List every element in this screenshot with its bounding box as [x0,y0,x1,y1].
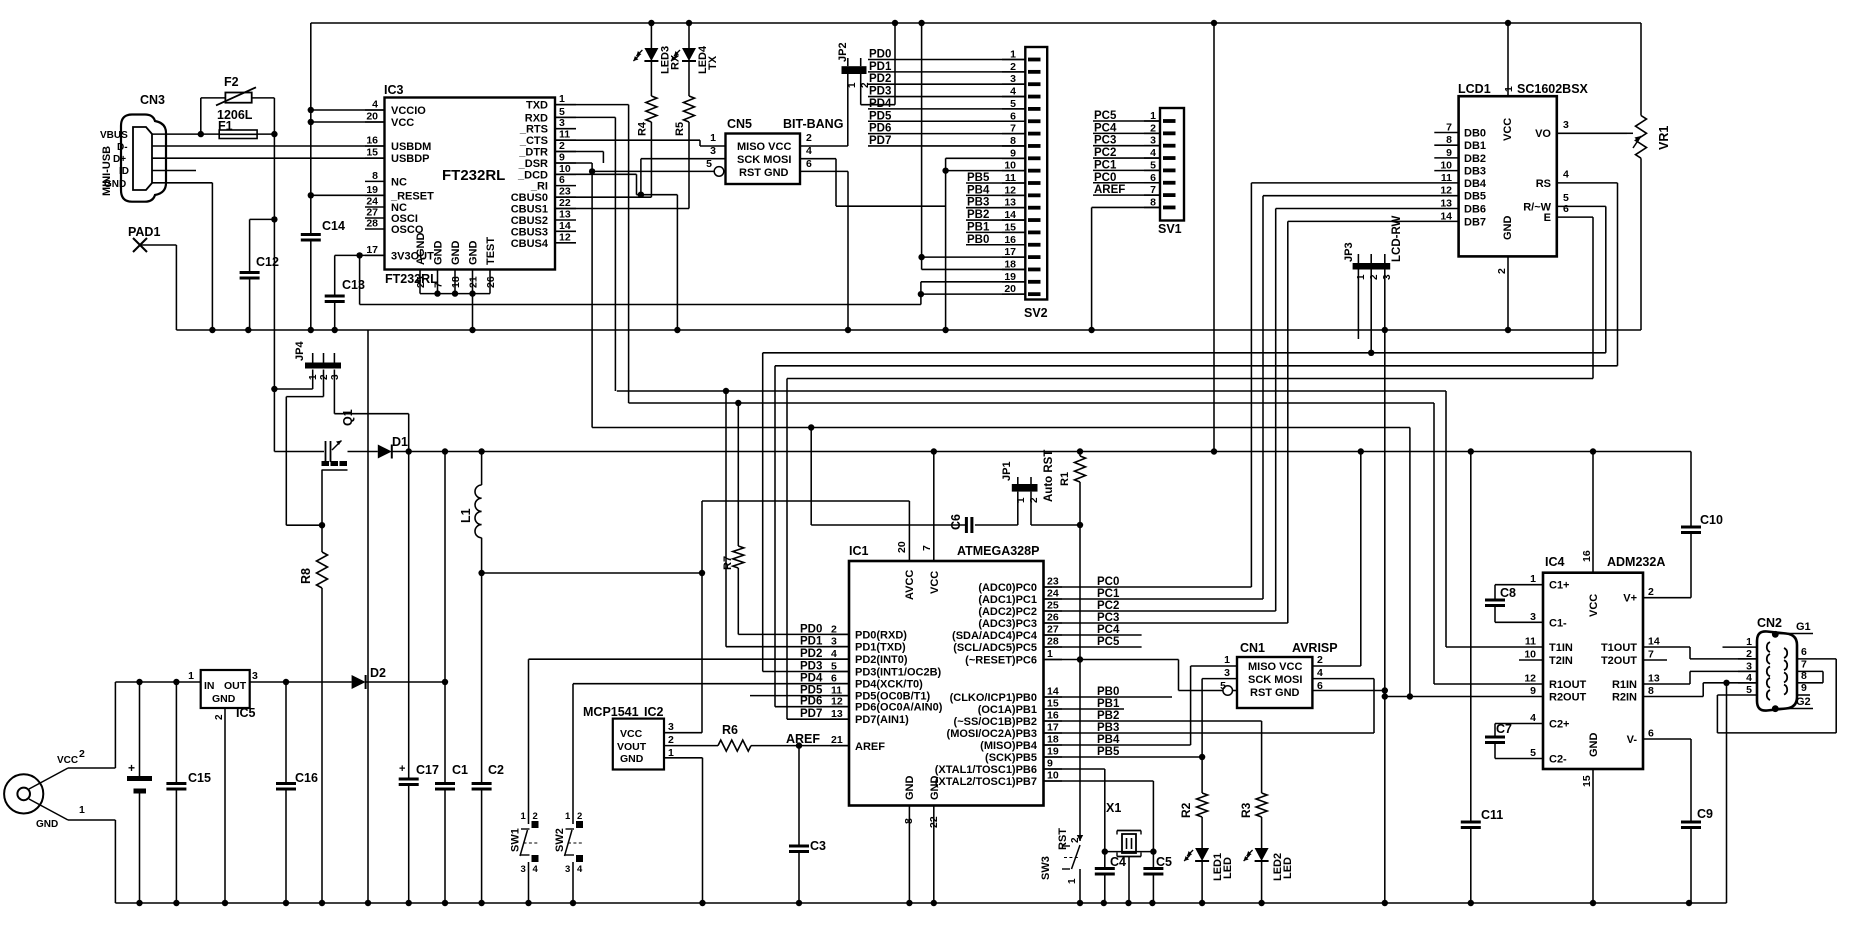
svg-text:19: 19 [366,184,378,196]
svg-text:PC4: PC4 [1097,624,1120,636]
svg-text:8: 8 [1446,134,1452,146]
svg-text:_CTS: _CTS [519,135,548,147]
svg-text:R2: R2 [1179,802,1193,818]
svg-text:VCC: VCC [620,728,643,740]
svg-text:5: 5 [1220,680,1226,692]
svg-text:2: 2 [79,748,85,760]
svg-text:GND: GND [104,179,126,190]
svg-text:4: 4 [831,648,837,660]
svg-text:GND: GND [212,693,236,705]
svg-text:PC1: PC1 [1097,588,1120,600]
svg-text:18: 18 [450,276,462,288]
svg-text:4: 4 [1150,147,1156,159]
svg-text:2: 2 [668,734,674,746]
svg-text:L1: L1 [459,508,473,523]
svg-text:2: 2 [1029,497,1040,503]
svg-text:12: 12 [559,231,571,243]
svg-text:R1OUT: R1OUT [1549,679,1587,691]
svg-text:18: 18 [1004,258,1016,270]
svg-text:21: 21 [468,276,480,288]
svg-text:PC0: PC0 [1094,172,1116,184]
svg-text:17: 17 [1004,246,1016,258]
svg-text:PB0: PB0 [967,234,989,246]
svg-text:GND: GND [620,753,644,765]
svg-text:6: 6 [1563,203,1569,215]
svg-text:DB4: DB4 [1464,178,1487,190]
svg-text:R5: R5 [674,122,686,136]
svg-text:2: 2 [1070,837,1081,843]
svg-text:VCCIO: VCCIO [391,105,426,117]
svg-text:4: 4 [1010,86,1016,98]
svg-text:6: 6 [1648,728,1654,740]
svg-text:C12: C12 [256,255,279,269]
svg-text:1: 1 [188,670,194,682]
svg-text:1: 1 [1224,654,1230,666]
svg-text:(CLKO/ICP1)PB0: (CLKO/ICP1)PB0 [950,692,1037,704]
svg-text:4: 4 [577,864,583,875]
svg-text:PD4: PD4 [800,673,823,685]
svg-text:9: 9 [1801,682,1807,694]
svg-text:19: 19 [1047,746,1059,758]
svg-text:PC2: PC2 [1097,600,1119,612]
svg-text:X1: X1 [1106,801,1121,815]
svg-text:1: 1 [559,93,565,105]
svg-text:20: 20 [896,541,908,553]
svg-text:9: 9 [1047,758,1053,770]
svg-text:CN3: CN3 [140,93,165,107]
svg-text:C14: C14 [322,219,345,233]
svg-text:PB5: PB5 [1097,746,1120,758]
svg-text:1: 1 [565,811,571,822]
svg-text:3: 3 [521,864,526,875]
svg-text:_RESET: _RESET [390,190,434,202]
svg-text:1: 1 [1047,648,1053,660]
svg-text:R3: R3 [1239,802,1253,818]
svg-text:23: 23 [559,186,571,198]
svg-text:8: 8 [1010,135,1016,147]
svg-text:(XTAL2/TOSC1)PB7: (XTAL2/TOSC1)PB7 [935,776,1037,788]
svg-text:2: 2 [806,132,812,144]
svg-text:USBDP: USBDP [391,153,430,165]
svg-text:4: 4 [806,145,812,157]
svg-text:PB0: PB0 [1097,686,1119,698]
svg-text:IC1: IC1 [849,544,869,558]
svg-text:(MISO)PB4: (MISO)PB4 [980,740,1038,752]
svg-text:12: 12 [1440,185,1452,197]
svg-text:CBUS1: CBUS1 [511,204,548,216]
svg-text:25: 25 [415,276,427,288]
svg-text:C1+: C1+ [1549,580,1570,592]
svg-text:C1: C1 [452,763,468,777]
svg-text:3: 3 [1746,660,1752,672]
svg-text:2: 2 [831,623,837,635]
svg-text:PC3: PC3 [1094,135,1116,147]
svg-text:PD1: PD1 [869,61,892,73]
svg-text:BIT-BANG: BIT-BANG [783,117,843,131]
svg-text:8: 8 [372,170,378,182]
svg-text:8: 8 [1801,670,1807,682]
svg-text:R2IN: R2IN [1612,692,1637,704]
svg-text:1: 1 [1356,274,1367,280]
svg-text:2: 2 [577,811,582,822]
svg-text:9: 9 [1446,147,1452,159]
svg-text:10: 10 [1004,160,1016,172]
svg-text:8: 8 [1648,685,1654,697]
svg-text:PD0: PD0 [800,623,822,635]
svg-text:7: 7 [1010,123,1016,135]
svg-text:20: 20 [366,111,378,123]
svg-text:PD2: PD2 [869,73,891,85]
svg-text:G2: G2 [1796,696,1811,708]
svg-text:VCC: VCC [391,117,414,129]
svg-text:PD2: PD2 [800,648,822,660]
svg-text:(~SS/OC1B)PB2: (~SS/OC1B)PB2 [954,716,1037,728]
svg-text:D+: D+ [113,154,126,165]
svg-text:C5: C5 [1156,855,1172,869]
svg-text:C2+: C2+ [1549,719,1570,731]
svg-text:8: 8 [1150,196,1156,208]
svg-text:4: 4 [1317,667,1323,679]
svg-text:GND: GND [36,819,58,830]
svg-text:14: 14 [559,220,571,232]
svg-text:VR1: VR1 [1657,126,1671,150]
svg-text:ATMEGA328P: ATMEGA328P [957,544,1039,558]
svg-text:TX: TX [707,55,719,70]
svg-text:GND: GND [433,241,445,266]
svg-text:2: 2 [533,811,538,822]
svg-text:+: + [128,761,135,775]
svg-text:1: 1 [1746,636,1752,648]
svg-text:5: 5 [1010,98,1016,110]
svg-text:6: 6 [1150,172,1156,184]
svg-text:PD0: PD0 [869,49,891,61]
svg-text:14: 14 [1648,636,1660,648]
svg-text:PD7: PD7 [869,135,891,147]
svg-text:PD7(AIN1): PD7(AIN1) [855,714,909,726]
svg-text:DB6: DB6 [1464,204,1486,216]
svg-text:R7: R7 [722,556,734,570]
svg-text:PB2: PB2 [1097,710,1119,722]
svg-text:C4: C4 [1110,855,1126,869]
svg-text:13: 13 [559,209,571,221]
svg-text:PC0: PC0 [1097,576,1119,588]
svg-text:11: 11 [1441,172,1452,184]
svg-text:PD6: PD6 [800,696,822,708]
svg-text:PD0(RXD): PD0(RXD) [855,629,907,641]
svg-text:1: 1 [1503,86,1515,92]
svg-text:C2-: C2- [1549,754,1567,766]
svg-text:19: 19 [1004,271,1016,283]
svg-text:6: 6 [559,174,565,186]
svg-text:4: 4 [533,864,539,875]
svg-text:SC1602BSX: SC1602BSX [1517,82,1589,96]
svg-text:3: 3 [559,117,565,129]
svg-text:3: 3 [831,636,837,648]
svg-text:3: 3 [1530,611,1536,623]
svg-text:VCC: VCC [1588,594,1600,617]
svg-text:RST GND: RST GND [1250,687,1300,699]
svg-text:PD4(XCK/T0): PD4(XCK/T0) [855,679,923,691]
svg-text:PAD1: PAD1 [128,225,160,239]
svg-text:PC5: PC5 [1094,110,1117,122]
svg-text:MISO VCC: MISO VCC [1248,661,1302,673]
svg-text:13: 13 [1004,197,1016,209]
svg-text:GND: GND [1502,216,1514,241]
svg-text:7: 7 [921,545,933,551]
svg-text:PD3: PD3 [869,86,891,98]
svg-text:AREF: AREF [786,732,820,746]
svg-text:PD1(TXD): PD1(TXD) [855,642,906,654]
svg-text:11: 11 [1525,636,1536,648]
svg-text:RS: RS [1536,178,1551,190]
svg-text:28: 28 [1047,636,1059,648]
svg-text:JP2: JP2 [837,42,849,62]
svg-text:LED: LED [1282,857,1294,879]
svg-text:SV1: SV1 [1158,222,1182,236]
svg-text:6: 6 [1801,646,1807,658]
svg-text:C9: C9 [1697,807,1713,821]
svg-text:DB1: DB1 [1464,140,1486,152]
svg-text:AVRISP: AVRISP [1292,641,1338,655]
svg-text:27: 27 [1047,624,1059,636]
svg-text:GND: GND [450,241,462,266]
svg-text:16: 16 [1047,710,1059,722]
svg-text:24: 24 [1047,588,1059,600]
svg-text:IC3: IC3 [384,83,404,97]
svg-text:C15: C15 [188,771,211,785]
svg-text:R8: R8 [299,568,313,584]
svg-text:_RTS: _RTS [519,124,548,136]
svg-text:CN2: CN2 [1757,616,1782,630]
svg-text:SCK MOSI: SCK MOSI [1248,674,1302,686]
svg-text:25: 25 [1047,600,1059,612]
svg-text:ADM232A: ADM232A [1607,555,1665,569]
svg-text:(ADC1)PC1: (ADC1)PC1 [978,594,1037,606]
svg-text:6: 6 [1010,110,1016,122]
svg-text:_DCD: _DCD [517,169,548,181]
svg-text:5: 5 [1150,159,1156,171]
svg-text:MCP1541: MCP1541 [583,705,639,719]
svg-text:E: E [1544,212,1551,224]
svg-text:26: 26 [485,276,497,288]
svg-text:1: 1 [1016,497,1027,503]
svg-text:SW2: SW2 [554,828,566,852]
svg-text:14: 14 [1440,210,1452,222]
svg-text:Q1: Q1 [341,409,355,426]
svg-text:3: 3 [1150,135,1156,147]
svg-text:R1: R1 [1059,472,1071,486]
svg-text:JP3: JP3 [1343,242,1355,262]
svg-text:PD7: PD7 [800,708,822,720]
svg-text:T1OUT: T1OUT [1601,642,1637,654]
svg-text:2: 2 [1746,648,1752,660]
svg-text:T2OUT: T2OUT [1601,655,1637,667]
svg-text:1: 1 [1067,878,1078,884]
svg-text:F1: F1 [218,119,233,133]
svg-text:(XTAL1/TOSC1)PB6: (XTAL1/TOSC1)PB6 [935,764,1037,776]
svg-text:LCD1: LCD1 [1458,82,1491,96]
svg-text:7: 7 [1801,659,1807,671]
svg-text:15: 15 [1004,221,1016,233]
svg-text:VCC: VCC [1502,118,1514,141]
svg-text:D2: D2 [370,666,386,680]
svg-text:(SDA/ADC4)PC4: (SDA/ADC4)PC4 [952,630,1038,642]
svg-text:C17: C17 [416,763,439,777]
svg-text:2: 2 [1496,268,1508,274]
svg-text:2: 2 [319,374,330,380]
svg-text:9: 9 [1010,147,1016,159]
svg-text:3: 3 [668,721,674,733]
svg-text:5: 5 [831,661,837,673]
svg-text:VBUS: VBUS [100,130,128,141]
svg-text:PB1: PB1 [1097,698,1120,710]
svg-text:LCD-RW: LCD-RW [1391,215,1403,262]
svg-text:SW1: SW1 [510,828,522,852]
svg-text:9: 9 [1530,685,1536,697]
svg-text:C8: C8 [1500,586,1516,600]
svg-text:CBUS4: CBUS4 [511,238,549,250]
svg-text:17: 17 [366,244,378,256]
svg-text:4: 4 [1530,712,1536,724]
svg-text:SCK MOSI: SCK MOSI [737,154,791,166]
svg-text:MISO VCC: MISO VCC [737,141,791,153]
svg-text:SW3: SW3 [1040,856,1052,880]
svg-text:USBDM: USBDM [391,141,431,153]
svg-text:C16: C16 [295,771,318,785]
svg-text:SV2: SV2 [1024,306,1048,320]
svg-text:28: 28 [366,218,378,230]
svg-text:PD1: PD1 [800,636,823,648]
svg-text:26: 26 [1047,612,1059,624]
svg-text:R6: R6 [722,723,738,737]
svg-text:AREF: AREF [1094,184,1125,196]
svg-text:1: 1 [79,804,85,816]
svg-text:10: 10 [1047,770,1059,782]
svg-text:PD6(OC0A/AIN0): PD6(OC0A/AIN0) [855,702,943,714]
svg-text:PC4: PC4 [1094,122,1117,134]
svg-text:RXD: RXD [525,112,548,124]
svg-text:(ADC3)PC3: (ADC3)PC3 [978,618,1037,630]
svg-text:9: 9 [559,152,565,164]
svg-text:6: 6 [831,673,837,685]
svg-text:(OC1A)PB1: (OC1A)PB1 [978,704,1037,716]
svg-text:PC1: PC1 [1094,159,1117,171]
svg-text:FT232RL: FT232RL [385,272,438,286]
svg-text:10: 10 [559,163,571,175]
svg-text:17: 17 [1047,722,1059,734]
svg-text:DB3: DB3 [1464,166,1486,178]
svg-text:7: 7 [433,282,445,288]
svg-text:3: 3 [710,145,716,157]
svg-text:3: 3 [565,864,570,875]
svg-text:C13: C13 [342,278,365,292]
svg-text:7: 7 [1446,122,1452,134]
svg-text:3: 3 [1563,119,1569,131]
svg-text:1: 1 [710,132,716,144]
svg-text:Auto RST: Auto RST [1043,450,1055,502]
svg-text:4: 4 [372,99,378,111]
svg-text:PB3: PB3 [967,197,989,209]
svg-text:7: 7 [1150,184,1156,196]
svg-text:12: 12 [831,696,843,708]
svg-text:CN1: CN1 [1240,641,1265,655]
svg-text:FT232RL: FT232RL [442,167,505,184]
svg-text:16: 16 [1004,234,1016,246]
svg-text:PB5: PB5 [967,172,990,184]
svg-text:PC2: PC2 [1094,147,1116,159]
svg-text:OUT: OUT [224,680,247,692]
svg-text:5: 5 [1530,747,1536,759]
svg-text:C3: C3 [810,839,826,853]
svg-text:14: 14 [1047,686,1059,698]
svg-text:16: 16 [366,135,378,147]
svg-text:LED: LED [1222,857,1234,879]
svg-text:3: 3 [252,670,258,682]
svg-text:22: 22 [559,197,571,209]
svg-text:1: 1 [1530,573,1536,585]
svg-text:R1IN: R1IN [1612,679,1637,691]
svg-text:PD4: PD4 [869,98,892,110]
svg-text:C11: C11 [1481,808,1503,822]
svg-text:AVCC: AVCC [904,570,916,600]
svg-text:16: 16 [1581,550,1593,562]
svg-text:2: 2 [559,140,565,152]
svg-text:CBUS2: CBUS2 [511,215,548,227]
svg-text:C10: C10 [1700,513,1723,527]
svg-text:23: 23 [1047,576,1059,588]
svg-text:JP4: JP4 [294,341,306,361]
svg-text:21: 21 [831,734,843,746]
svg-text:F2: F2 [224,75,239,89]
svg-text:2: 2 [1369,274,1380,280]
svg-text:PB4: PB4 [1097,734,1120,746]
svg-text:(ADC2)PC2: (ADC2)PC2 [978,606,1037,618]
svg-text:PB3: PB3 [1097,722,1119,734]
svg-text:PB2: PB2 [967,209,989,221]
svg-text:CN5: CN5 [727,117,752,131]
svg-text:2: 2 [1648,586,1654,598]
svg-text:C1-: C1- [1549,617,1567,629]
svg-text:18: 18 [1047,734,1059,746]
svg-text:(~RESET)PC6: (~RESET)PC6 [965,655,1037,667]
svg-text:10: 10 [1440,160,1452,172]
svg-text:DB7: DB7 [1464,216,1486,228]
svg-text:IC4: IC4 [1545,555,1565,569]
svg-text:NC: NC [391,176,407,188]
svg-text:1: 1 [521,811,527,822]
svg-text:G1: G1 [1796,621,1811,633]
svg-text:5: 5 [706,158,712,170]
svg-text:IN: IN [204,680,215,692]
svg-text:14: 14 [1004,209,1016,221]
svg-text:T1IN: T1IN [1549,642,1573,654]
svg-text:1: 1 [847,82,858,88]
svg-text:2: 2 [214,714,225,720]
svg-text:R4: R4 [636,121,648,136]
svg-text:IC2: IC2 [644,705,664,719]
svg-text:PD3(INT1/OC2B): PD3(INT1/OC2B) [855,667,942,679]
svg-text:13: 13 [831,708,843,720]
svg-text:2: 2 [1150,122,1156,134]
svg-text:13: 13 [1440,198,1452,210]
svg-text:3: 3 [1010,73,1016,85]
svg-text:11: 11 [1005,172,1016,184]
svg-text:T2IN: T2IN [1549,655,1573,667]
svg-text:IC5: IC5 [236,706,256,720]
svg-text:PD6: PD6 [869,123,891,135]
svg-text:_RI: _RI [530,181,548,193]
svg-text:PC5: PC5 [1097,636,1120,648]
